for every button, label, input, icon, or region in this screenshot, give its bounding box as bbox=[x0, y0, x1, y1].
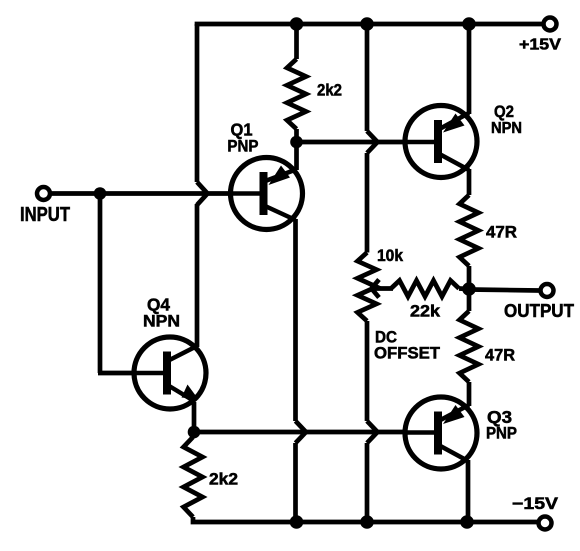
terminal OUTPUT bbox=[541, 284, 554, 297]
wire hop of vertical D over Q2 base wire bbox=[367, 131, 378, 153]
svg-text:2k2: 2k2 bbox=[209, 471, 238, 489]
wire D from top rail to hop bbox=[365, 24, 370, 131]
wire 47R to output node bbox=[467, 266, 472, 289]
svg-text:22k: 22k bbox=[410, 303, 441, 321]
wire Q4 emitter vertical bbox=[192, 402, 197, 434]
wire Q4 emitter node to Q3 base bbox=[194, 430, 406, 435]
transistor Q1 PNP bbox=[230, 158, 303, 230]
wire Q2 emitter vertical bbox=[467, 169, 472, 195]
resistor 2k2 upper bbox=[287, 59, 306, 129]
svg-text:NPN: NPN bbox=[143, 313, 180, 331]
wire E top rail to Q2 collector bbox=[467, 24, 472, 114]
junction top rail node E bbox=[462, 17, 476, 31]
wire D from 10k pot to hop bbox=[365, 321, 370, 421]
svg-text:Q2: Q2 bbox=[494, 103, 514, 121]
junction output node bbox=[462, 282, 476, 296]
svg-text:47R: 47R bbox=[486, 223, 517, 242]
transistor Q2 NPN bbox=[404, 106, 477, 178]
svg-text:−15V: −15V bbox=[512, 495, 558, 513]
wiper arrow barb upper bbox=[372, 280, 380, 289]
wire hop of Q1 collector vertical over Q3 base wire bbox=[296, 421, 307, 443]
resistor 2k2 lower bbox=[184, 437, 203, 517]
wire 22k to output node bbox=[459, 286, 469, 291]
wire 2k2 lower lead to node bbox=[191, 432, 196, 437]
svg-text:10k: 10k bbox=[377, 247, 404, 265]
junction top rail node D bbox=[360, 17, 374, 31]
wire A to Q4 base bbox=[98, 371, 136, 376]
wire 2k2 to Q1 emitter node bbox=[294, 129, 299, 144]
wire hop of vertical D over Q3 base wire bbox=[367, 421, 378, 443]
wire output lead bbox=[469, 290, 539, 291]
potentiometer 10k body bbox=[358, 253, 377, 322]
wire top rail +15V bbox=[197, 24, 542, 26]
wire D from hop to bottom rail bbox=[365, 443, 370, 522]
transistor Q3 PNP bbox=[404, 397, 477, 469]
terminal -15V bbox=[539, 517, 552, 530]
resistor 22k bbox=[391, 281, 459, 297]
svg-text:2k2: 2k2 bbox=[317, 82, 342, 100]
svg-text:47R: 47R bbox=[485, 346, 515, 365]
wire 47R lower to Q3 collector bbox=[467, 382, 472, 406]
svg-text:PNP: PNP bbox=[227, 137, 258, 155]
svg-text:Q4: Q4 bbox=[147, 295, 170, 315]
svg-text:NPN: NPN bbox=[491, 120, 522, 137]
terminal +15V bbox=[544, 18, 557, 31]
svg-text:OFFSET: OFFSET bbox=[374, 345, 440, 363]
wire 10k wiper shaft bbox=[372, 286, 393, 291]
resistor 47R upper bbox=[460, 195, 479, 266]
junction bottom rail node E bbox=[460, 515, 474, 529]
wire Q3 emitter vertical to bottom rail bbox=[466, 460, 471, 522]
junction Q1 emitter node bbox=[290, 136, 303, 149]
svg-text:+15V: +15V bbox=[519, 37, 562, 54]
junction input node bbox=[94, 187, 107, 200]
wire left vertical B lower (hop to Q4 collector) bbox=[195, 204, 200, 347]
wire Q1 collector vertical lower bbox=[293, 443, 298, 522]
wire bottom rail -15V bbox=[193, 517, 537, 522]
wire Q1 collector vertical upper bbox=[293, 219, 298, 421]
svg-text:Q1: Q1 bbox=[231, 119, 253, 139]
wiper arrow barb lower bbox=[372, 289, 380, 298]
wire Q1 emitter node to Q2 base bbox=[297, 140, 407, 145]
svg-text:INPUT: INPUT bbox=[20, 204, 70, 226]
junction top rail node C bbox=[290, 17, 304, 31]
transistor Q4 NPN bbox=[134, 337, 206, 409]
wire Q1 emitter vertical bbox=[294, 142, 299, 170]
wire vertical A from input junction down bbox=[98, 194, 103, 374]
resistor 47R lower bbox=[460, 311, 479, 382]
junction bottom rail node D bbox=[360, 515, 374, 529]
terminal INPUT bbox=[37, 187, 50, 200]
wire left vertical B upper (corner to hop) bbox=[195, 24, 200, 182]
wire output node to 47R lower bbox=[467, 289, 472, 311]
wire C from top rail to 2k2 bbox=[294, 24, 299, 59]
wire D from hop to 10k pot bbox=[365, 153, 370, 253]
svg-text:OUTPUT: OUTPUT bbox=[504, 301, 574, 321]
junction Q4 emitter node bbox=[188, 426, 201, 439]
svg-text:PNP: PNP bbox=[486, 425, 517, 443]
wire hop of vertical B over input wire bbox=[197, 182, 208, 205]
wire input lead bbox=[50, 191, 232, 196]
junction bottom rail node C bbox=[290, 515, 304, 529]
